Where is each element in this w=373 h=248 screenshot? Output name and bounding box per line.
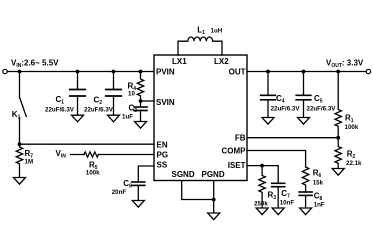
svg-text:L1: L1	[197, 26, 205, 37]
svg-text:22.1k: 22.1k	[346, 160, 362, 167]
svg-text:22uF/6.3V: 22uF/6.3V	[84, 106, 114, 113]
capacitor C8	[299, 191, 312, 193]
resistor R7	[16, 144, 22, 177]
ground below R2	[332, 169, 344, 176]
ground below C8	[300, 208, 312, 215]
node C4 tap	[266, 70, 270, 74]
svg-text:22uF/6.3V: 22uF/6.3V	[271, 106, 301, 113]
svg-text:LX1: LX1	[172, 57, 187, 66]
resistor R5	[84, 152, 98, 157]
resistor R6	[302, 167, 308, 192]
svg-text:C2: C2	[94, 95, 103, 106]
capacitor C1	[77, 72, 79, 90]
svg-text:VIN: VIN	[56, 149, 67, 160]
svg-text:R6: R6	[313, 169, 322, 180]
ground below PGND	[213, 200, 215, 214]
wire VOUT rail	[247, 71, 366, 73]
svg-text:20nF: 20nF	[112, 189, 127, 196]
IC U1 body	[154, 55, 247, 181]
svg-text:SGND: SGND	[172, 170, 195, 179]
svg-text:VOUT: 3.3V: VOUT: 3.3V	[326, 59, 364, 70]
svg-text:R2: R2	[347, 150, 356, 161]
svg-text:15k: 15k	[313, 180, 324, 187]
svg-text:10: 10	[128, 91, 135, 98]
svg-text:ISET: ISET	[228, 161, 246, 170]
node C1 tap	[76, 70, 80, 74]
svg-text:1nF: 1nF	[314, 202, 325, 209]
svg-text:1uF: 1uF	[122, 114, 133, 121]
svg-text:1uH: 1uH	[211, 28, 223, 35]
svg-text:C1: C1	[56, 95, 65, 106]
svg-text:R3: R3	[268, 191, 277, 202]
wire PGND	[213, 181, 215, 200]
wire VIN rail	[7, 71, 154, 73]
node SVIN	[139, 99, 143, 103]
node C2 tap	[112, 70, 116, 74]
svg-text:OUT: OUT	[229, 68, 246, 77]
svg-text:C3: C3	[129, 104, 138, 115]
ground below R3	[256, 208, 268, 215]
ground below C3	[135, 122, 147, 129]
svg-text:C4: C4	[276, 94, 285, 105]
node R4 tap	[139, 70, 143, 74]
svg-text:C6: C6	[123, 179, 132, 190]
svg-text:C7: C7	[281, 189, 290, 200]
node ISET junction	[260, 164, 264, 168]
svg-text:22uF/6.3V: 22uF/6.3V	[45, 106, 75, 113]
wire SGND	[182, 181, 214, 200]
resistor R1	[335, 72, 341, 138]
svg-text:100k: 100k	[345, 124, 359, 131]
svg-text:100k: 100k	[86, 170, 100, 177]
ground below C1	[72, 115, 84, 122]
ground below C7	[272, 208, 284, 215]
wire EN	[20, 143, 155, 145]
svg-text:1M: 1M	[25, 159, 34, 166]
svg-text:PGND: PGND	[202, 170, 225, 179]
wire ISET	[247, 166, 278, 184]
svg-text:K1: K1	[12, 110, 21, 121]
switch K1	[19, 72, 21, 99]
input terminal VIN	[3, 69, 7, 73]
wire SVIN	[141, 100, 155, 102]
capacitor C2	[113, 72, 115, 90]
svg-text:22uF/6.3V: 22uF/6.3V	[307, 106, 337, 113]
svg-text:250k: 250k	[254, 201, 268, 208]
svg-text:C5: C5	[314, 94, 323, 105]
node K1 tap	[18, 70, 22, 74]
svg-text:FB: FB	[235, 133, 246, 142]
svg-text:EN: EN	[157, 140, 168, 149]
svg-text:SS: SS	[157, 161, 168, 170]
capacitor C6	[132, 181, 145, 183]
node EN junction	[18, 142, 22, 146]
inductor L1	[178, 37, 222, 55]
wire COMP	[247, 151, 306, 168]
ground below C4	[262, 118, 274, 125]
ground below C5	[298, 118, 310, 125]
svg-text:SVIN: SVIN	[156, 98, 175, 107]
svg-text:PVIN: PVIN	[156, 68, 175, 77]
capacitor C7	[272, 182, 285, 184]
capacitor C3	[140, 101, 142, 107]
capacitor C4	[267, 72, 269, 96]
resistor R2	[335, 138, 341, 169]
capacitor C5	[303, 72, 305, 96]
resistor R3	[259, 166, 265, 208]
svg-text:R1: R1	[345, 114, 354, 125]
node R1 tap	[336, 70, 340, 74]
node FB junction	[336, 136, 340, 140]
wire VIN to R5	[71, 154, 85, 156]
wire FB	[247, 137, 338, 139]
wire PG	[98, 154, 154, 156]
svg-text:10nF: 10nF	[280, 200, 295, 207]
ground below R7	[14, 178, 26, 185]
node C5 tap	[302, 70, 306, 74]
svg-text:LX2: LX2	[214, 57, 229, 66]
svg-text:C8: C8	[314, 192, 323, 203]
ground below C2	[108, 115, 120, 122]
resistor R4	[137, 72, 143, 102]
wire SS	[138, 166, 154, 182]
output terminal VOUT	[366, 69, 370, 73]
node PGND junction	[212, 198, 216, 202]
svg-text:COMP: COMP	[222, 147, 247, 156]
svg-text:VIN:2.6~ 5.5V: VIN:2.6~ 5.5V	[11, 58, 59, 69]
ground below C6	[132, 201, 144, 208]
svg-text:PG: PG	[157, 151, 169, 160]
